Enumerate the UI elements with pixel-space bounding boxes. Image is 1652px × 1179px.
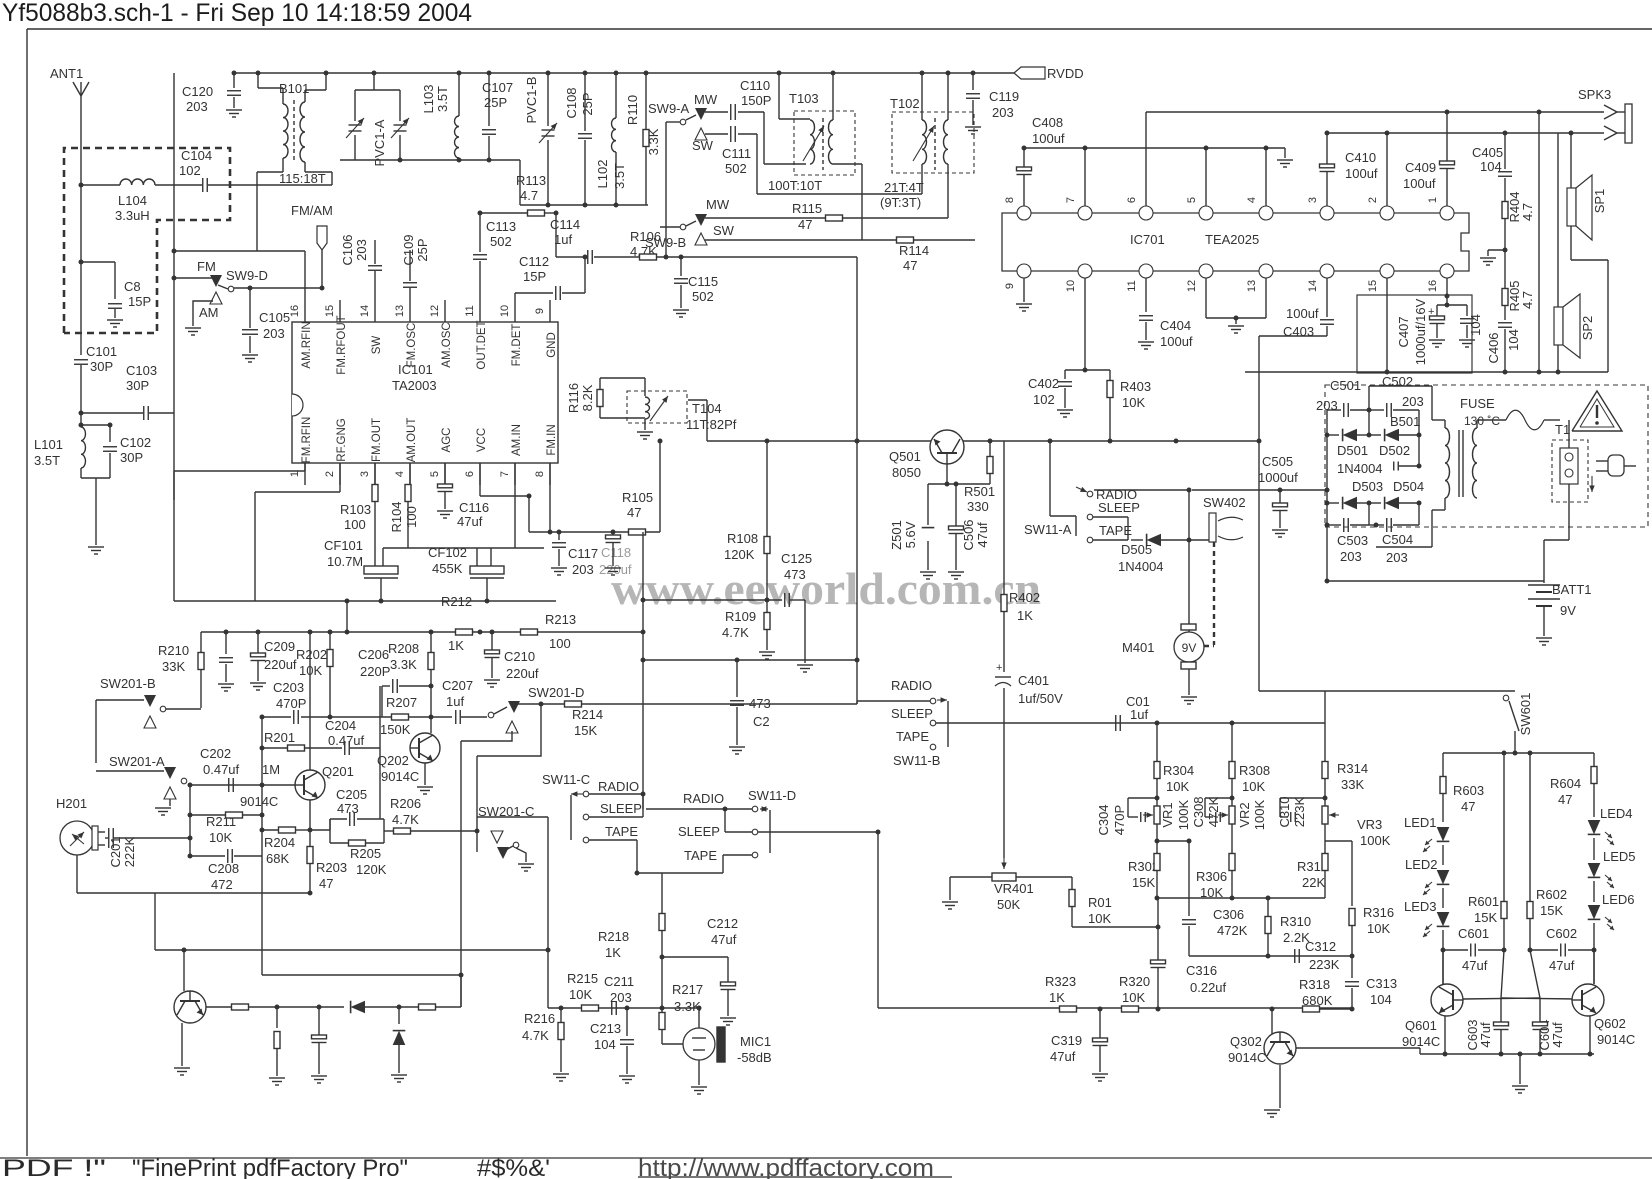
svg-text:C208: C208 — [208, 861, 239, 876]
svg-text:AM.IN: AM.IN — [511, 424, 523, 456]
svg-text:FM.IN: FM.IN — [546, 424, 558, 455]
svg-text:Z501: Z501 — [889, 520, 904, 550]
svg-text:100uf: 100uf — [1286, 306, 1319, 321]
svg-text:+: + — [996, 662, 1002, 674]
svg-text:"FinePrint pdfFactory Pro": "FinePrint pdfFactory Pro" — [132, 1155, 408, 1179]
wire led bottom rail — [1420, 1053, 1594, 1055]
svg-text:100: 100 — [344, 517, 366, 532]
svg-text:R602: R602 — [1536, 887, 1567, 902]
svg-text:www.eeworld.com.cn: www.eeworld.com.cn — [611, 563, 1041, 614]
svg-text:AGC: AGC — [441, 428, 453, 453]
svg-text:R214: R214 — [572, 707, 603, 722]
svg-text:C103: C103 — [126, 363, 157, 378]
wire SW11-C tape contact — [589, 839, 637, 841]
svg-text:13: 13 — [394, 305, 406, 317]
svg-text:SW402: SW402 — [1203, 495, 1246, 510]
svg-text:SW201-D: SW201-D — [528, 685, 584, 700]
svg-text:R306: R306 — [1196, 869, 1227, 884]
svg-text:T102: T102 — [890, 96, 920, 111]
svg-text:472K: 472K — [1217, 923, 1248, 938]
ground motor driver — [174, 1067, 190, 1069]
svg-text:BATT1: BATT1 — [1552, 582, 1592, 597]
svg-text:C404: C404 — [1160, 318, 1191, 333]
svg-text:15K: 15K — [1132, 875, 1155, 890]
amplifier IC701 TEA2025 box — [1002, 213, 1469, 271]
svg-text:21T:4T: 21T:4T — [884, 180, 924, 195]
svg-text:R310: R310 — [1280, 914, 1311, 929]
svg-text:R603: R603 — [1453, 783, 1484, 798]
wire pin5 up — [1205, 148, 1207, 206]
svg-text:C118: C118 — [601, 545, 631, 560]
wire to Q501 rail — [659, 441, 661, 532]
svg-text:SW11-B: SW11-B — [893, 753, 940, 768]
svg-text:RADIO: RADIO — [891, 678, 932, 693]
resistor to switch line — [399, 1006, 419, 1008]
wire pin10 down — [1084, 278, 1086, 370]
svg-text:R212: R212 — [441, 594, 472, 609]
wire pin6 to jack tip — [1145, 112, 1147, 206]
svg-text:C207: C207 — [442, 678, 473, 693]
svg-text:SW601: SW601 — [1518, 693, 1533, 736]
svg-text:PVC1-B: PVC1-B — [524, 77, 539, 124]
wire mid tone bus — [1157, 897, 1325, 899]
plug cord icon — [1596, 460, 1608, 462]
wire pin7 up — [1084, 148, 1086, 206]
svg-text:11: 11 — [464, 305, 476, 316]
svg-text:203: 203 — [992, 105, 1014, 120]
ground C105 — [242, 354, 258, 356]
svg-text:C105: C105 — [259, 310, 290, 325]
svg-text:12: 12 — [429, 305, 441, 317]
svg-text:M401: M401 — [1122, 640, 1155, 655]
svg-text:C213: C213 — [590, 1021, 621, 1036]
svg-text:C2: C2 — [753, 714, 770, 729]
IC101 pin 8 stub — [549, 463, 551, 485]
svg-text:R01: R01 — [1088, 895, 1112, 910]
ground T104 — [637, 431, 653, 433]
svg-text:8050: 8050 — [892, 465, 921, 480]
svg-text:3.3K: 3.3K — [390, 657, 417, 672]
svg-text:100uf: 100uf — [1160, 334, 1193, 349]
wire RADIO line to C505 — [1094, 489, 1189, 491]
ground C125 — [797, 664, 813, 666]
svg-text:4.7K: 4.7K — [722, 625, 749, 640]
svg-text:L102: L102 — [595, 160, 610, 189]
wire SW201-D NC branch — [461, 731, 512, 741]
svg-text:7: 7 — [499, 471, 511, 477]
wire main rail y441 — [707, 440, 1259, 442]
svg-text:50K: 50K — [997, 897, 1020, 912]
svg-text:30P: 30P — [120, 450, 143, 465]
wire led top rail — [1443, 752, 1594, 754]
svg-text:TAPE: TAPE — [896, 729, 929, 744]
ground C213 — [619, 1075, 635, 1077]
svg-text:Q602: Q602 — [1594, 1016, 1626, 1031]
svg-text:R402: R402 — [1009, 590, 1040, 605]
ground MIC1 — [691, 1086, 707, 1088]
wire SW11-C radio contact — [589, 793, 643, 795]
svg-text:33K: 33K — [1341, 777, 1364, 792]
svg-text:1uf: 1uf — [446, 694, 464, 709]
box C407 — [1357, 295, 1472, 373]
svg-text:4: 4 — [394, 471, 406, 477]
wire speaker bottom rail — [1245, 371, 1608, 373]
IC701 pin 12 circle — [1199, 264, 1213, 278]
svg-text:10K: 10K — [209, 830, 232, 845]
svg-text:RF.GNG: RF.GNG — [336, 418, 348, 462]
svg-text:4: 4 — [1246, 197, 1258, 203]
svg-text:100K: 100K — [1176, 799, 1191, 830]
svg-text:R113: R113 — [516, 173, 546, 188]
svg-text:L104: L104 — [118, 193, 147, 208]
svg-text:SW11-A: SW11-A — [1024, 522, 1072, 537]
svg-text:220uf: 220uf — [599, 562, 632, 577]
svg-text:220uf: 220uf — [264, 657, 297, 672]
svg-text:100uf: 100uf — [1403, 176, 1436, 191]
svg-text:C114: C114 — [550, 217, 580, 232]
svg-text:30P: 30P — [126, 378, 149, 393]
op-amp IC101 TA2003 box — [292, 322, 558, 463]
svg-text:1uf: 1uf — [1130, 707, 1148, 722]
svg-text:3.5T: 3.5T — [612, 163, 627, 189]
svg-text:R206: R206 — [390, 796, 421, 811]
svg-text:FM/AM: FM/AM — [291, 203, 333, 218]
svg-text:D504: D504 — [1393, 479, 1424, 494]
svg-text:0.47uf: 0.47uf — [203, 762, 240, 777]
svg-text:FM.OUT: FM.OUT — [371, 418, 383, 462]
svg-text:R217: R217 — [672, 982, 703, 997]
svg-text:1K: 1K — [1017, 608, 1033, 623]
svg-text:9014C: 9014C — [1228, 1050, 1266, 1065]
svg-text:100K: 100K — [1252, 799, 1267, 830]
svg-text:203: 203 — [572, 562, 594, 577]
wire top supply rail RVDD — [234, 72, 1014, 74]
node RVDD tag — [1014, 67, 1045, 79]
wire pin16 to C407 box — [1446, 278, 1448, 296]
svg-text:AM.OUT: AM.OUT — [406, 418, 418, 463]
warning triangle — [1572, 391, 1622, 431]
wire Q201 base — [190, 784, 295, 786]
svg-text:C210: C210 — [504, 649, 535, 664]
svg-text:TAPE: TAPE — [684, 848, 717, 863]
svg-text:Q202: Q202 — [377, 753, 409, 768]
svg-text:33K: 33K — [162, 659, 185, 674]
svg-text:SLEEP: SLEEP — [678, 824, 720, 839]
wire base bias column — [261, 717, 263, 856]
svg-text:FM.RFOUT: FM.RFOUT — [336, 315, 348, 374]
svg-text:9V: 9V — [1182, 641, 1197, 655]
IC701 pin 6 circle — [1139, 206, 1153, 220]
wire main low bus — [878, 1007, 1352, 1009]
svg-text:R320: R320 — [1119, 974, 1150, 989]
svg-text:TA2003: TA2003 — [392, 378, 437, 393]
svg-text:10K: 10K — [1242, 779, 1265, 794]
svg-text:C116: C116 — [459, 500, 489, 515]
ground Z501 — [920, 571, 936, 573]
IC101 pin 14 stub — [374, 300, 376, 322]
ground C120 — [226, 109, 242, 111]
svg-text:9V: 9V — [1560, 603, 1576, 618]
svg-text:C201: C201 — [108, 836, 123, 867]
IC101 pin 4 stub — [409, 463, 411, 485]
svg-text:SW: SW — [371, 336, 383, 355]
svg-text:1K: 1K — [1049, 990, 1065, 1005]
svg-text:Q601: Q601 — [1405, 1018, 1437, 1033]
svg-text:C117: C117 — [568, 546, 598, 561]
svg-text:6: 6 — [464, 471, 476, 477]
svg-text:SW9-A: SW9-A — [648, 101, 690, 116]
svg-text:502: 502 — [725, 161, 747, 176]
footer separator line — [0, 1157, 1652, 1159]
svg-text:102: 102 — [179, 163, 201, 178]
svg-text:CF102: CF102 — [428, 545, 467, 560]
wire supply rail 200 — [201, 631, 643, 633]
svg-text:R314: R314 — [1337, 761, 1368, 776]
ground C115 — [673, 309, 689, 311]
wire audio vertical to bus — [877, 832, 879, 1008]
wire jack tip branch — [1538, 112, 1540, 372]
wire pin4 up — [1265, 148, 1267, 206]
svg-text:R110: R110 — [625, 95, 640, 125]
svg-text:T103: T103 — [789, 91, 819, 106]
svg-text:SW201-A: SW201-A — [109, 754, 165, 769]
ground pin8 rail — [1277, 159, 1293, 161]
top border line — [27, 28, 1652, 30]
svg-text:47: 47 — [319, 876, 333, 891]
svg-text:16: 16 — [289, 305, 301, 317]
wire SW11-C sleep contact — [589, 816, 643, 818]
svg-text:47: 47 — [627, 505, 641, 520]
svg-text:LED4: LED4 — [1600, 806, 1633, 821]
svg-text:100: 100 — [404, 506, 419, 528]
wire pin3 pin2 line — [1326, 132, 1604, 134]
svg-text:R403: R403 — [1120, 379, 1151, 394]
svg-text:R115: R115 — [792, 201, 822, 216]
diode series — [277, 1006, 344, 1008]
svg-text:1N4004: 1N4004 — [1118, 559, 1164, 574]
svg-text:100T:10T: 100T:10T — [768, 178, 822, 193]
IC101 pin 7 stub — [514, 463, 516, 485]
wire pin7 AM.IN — [514, 463, 516, 548]
svg-text:SLEEP: SLEEP — [600, 801, 642, 816]
wire base node — [928, 483, 990, 485]
svg-text:C104: C104 — [181, 148, 212, 163]
svg-text:1K: 1K — [605, 945, 621, 960]
wire cross coupling — [1501, 950, 1504, 998]
ground Q202 — [417, 786, 433, 788]
svg-text:LED1: LED1 — [1404, 815, 1437, 830]
svg-text:TEA2025: TEA2025 — [1205, 232, 1259, 247]
svg-text:C408: C408 — [1032, 115, 1063, 130]
IC101 pin 6 stub — [479, 463, 481, 485]
wire motor driver output — [206, 1006, 232, 1008]
svg-text:FM.DET: FM.DET — [511, 324, 523, 367]
svg-text:47uf: 47uf — [1550, 1022, 1565, 1048]
svg-text:47: 47 — [1558, 792, 1572, 807]
dashed link SW402 to motor — [1213, 542, 1215, 645]
wire T104 to rail — [706, 400, 708, 441]
svg-text:http://www.pdffactory.com: http://www.pdffactory.com — [638, 1155, 934, 1179]
wire sw601 feed — [1259, 690, 1515, 692]
svg-text:CF101: CF101 — [324, 538, 363, 553]
svg-text:203: 203 — [1340, 549, 1362, 564]
svg-text:SW9-D: SW9-D — [226, 268, 268, 283]
wire L101 C102 join — [81, 424, 110, 426]
capacitor unlabeled near R210 — [225, 632, 227, 654]
ground BATT1 — [1536, 637, 1552, 639]
svg-text:L101: L101 — [34, 437, 63, 452]
svg-text:C319: C319 — [1051, 1033, 1082, 1048]
svg-text:(9T:3T): (9T:3T) — [880, 195, 921, 210]
wire tape line down — [547, 817, 549, 1008]
svg-text:220uf: 220uf — [506, 666, 539, 681]
svg-text:100uf: 100uf — [1345, 166, 1378, 181]
svg-text:C108: C108 — [564, 87, 579, 118]
svg-text:C202: C202 — [200, 746, 231, 761]
svg-text:Q302: Q302 — [1230, 1034, 1262, 1049]
wire mic input line — [548, 1007, 699, 1009]
svg-text:C306: C306 — [1213, 907, 1244, 922]
svg-text:C212: C212 — [707, 916, 738, 931]
wire pin8 top rail — [1024, 147, 1285, 149]
ground C117 — [551, 567, 567, 569]
svg-text:RADIO: RADIO — [598, 779, 639, 794]
svg-text:203: 203 — [263, 326, 285, 341]
svg-text:C308: C308 — [1191, 796, 1206, 827]
svg-text:C403: C403 — [1283, 324, 1314, 339]
svg-text:R109: R109 — [725, 609, 756, 624]
svg-text:502: 502 — [692, 289, 714, 304]
transistor motor driver — [174, 991, 206, 1023]
svg-text:C204: C204 — [325, 718, 356, 733]
svg-text:R201: R201 — [264, 730, 295, 745]
svg-text:R304: R304 — [1163, 763, 1194, 778]
svg-text:15: 15 — [324, 305, 336, 317]
svg-text:455K: 455K — [432, 561, 463, 576]
ground pins 12 13 — [1228, 325, 1244, 327]
svg-text:-58dB: -58dB — [737, 1050, 772, 1065]
svg-text:C310: C310 — [1277, 796, 1292, 827]
wire pin6 VCC — [479, 463, 481, 496]
ground C210 — [484, 679, 500, 681]
svg-text:IC701: IC701 — [1130, 232, 1165, 247]
dashed power box — [1325, 385, 1648, 527]
svg-text:D505: D505 — [1121, 542, 1152, 557]
svg-text:9: 9 — [1004, 283, 1016, 289]
svg-text:C113: C113 — [486, 219, 516, 234]
svg-text:472: 472 — [211, 877, 233, 892]
svg-text:B501: B501 — [1390, 414, 1420, 429]
svg-text:5.6V: 5.6V — [903, 521, 918, 548]
svg-text:4.7: 4.7 — [1520, 203, 1535, 221]
svg-text:C101: C101 — [86, 344, 117, 359]
svg-text:R216: R216 — [524, 1011, 555, 1026]
wire pin2 RF.GNG — [339, 463, 341, 492]
svg-text:102: 102 — [1033, 392, 1055, 407]
svg-text:SPK3: SPK3 — [1578, 87, 1611, 102]
svg-text:LED6: LED6 — [1602, 892, 1635, 907]
wire C206 C207 node to Q202 — [430, 717, 432, 733]
svg-text:100: 100 — [549, 636, 571, 651]
wire Q302 collector — [1296, 1047, 1420, 1049]
svg-text:1: 1 — [1427, 197, 1439, 203]
svg-text:FM: FM — [197, 259, 216, 274]
svg-text:R204: R204 — [264, 835, 295, 850]
svg-text:FM.OSC: FM.OSC — [406, 323, 418, 368]
svg-text:115:18T: 115:18T — [279, 171, 326, 186]
svg-text:R308: R308 — [1239, 763, 1270, 778]
svg-text:C106: C106 — [340, 234, 355, 265]
svg-text:2: 2 — [1367, 197, 1379, 203]
IC101 pin 11 stub — [479, 300, 481, 322]
svg-text:VR1: VR1 — [1160, 802, 1175, 827]
svg-text:30P: 30P — [90, 359, 113, 374]
svg-text:+: + — [1428, 306, 1434, 318]
svg-text:R103: R103 — [340, 502, 371, 517]
IC701 pin 7 circle — [1078, 206, 1092, 220]
svg-text:203: 203 — [1386, 550, 1408, 565]
svg-text:C107: C107 — [482, 80, 513, 95]
svg-text:8.2K: 8.2K — [580, 384, 595, 411]
ground mid tap — [1488, 249, 1505, 251]
IC101 pin 9 stub — [549, 300, 551, 322]
svg-text:10K: 10K — [1122, 395, 1145, 410]
svg-text:SW11-D: SW11-D — [748, 788, 796, 803]
svg-text:203: 203 — [354, 239, 369, 261]
wire H201 ground return — [76, 855, 78, 893]
ground C8 — [107, 319, 123, 321]
svg-text:222K: 222K — [122, 836, 137, 867]
svg-text:104: 104 — [594, 1037, 616, 1052]
detector filter row — [529, 531, 660, 533]
wire pin15 down — [1386, 278, 1388, 372]
wire bridge columns — [1326, 410, 1328, 581]
svg-text:223K: 223K — [1309, 957, 1340, 972]
svg-text:10K: 10K — [1367, 921, 1390, 936]
svg-text:473: 473 — [337, 801, 359, 816]
svg-text:R108: R108 — [727, 531, 758, 546]
wire left column — [189, 785, 191, 856]
capacitor shunt — [318, 1007, 320, 1035]
svg-text:C120: C120 — [182, 84, 213, 99]
IC701 pin 15 circle — [1380, 264, 1394, 278]
svg-text:SW: SW — [713, 223, 735, 238]
svg-text:SP2: SP2 — [1580, 316, 1595, 341]
ground pin9 — [1023, 278, 1025, 302]
IC101 pin 12 stub — [444, 300, 446, 322]
ground R109 — [759, 651, 775, 653]
svg-text:C125: C125 — [781, 551, 812, 566]
svg-text:C410: C410 — [1345, 150, 1376, 165]
svg-text:R114: R114 — [899, 243, 929, 258]
wire mid bus join — [697, 1006, 702, 1011]
wire SW11-D sleep out — [725, 831, 752, 833]
svg-text:3: 3 — [359, 471, 371, 477]
svg-text:1000uf/16V: 1000uf/16V — [1413, 298, 1428, 365]
svg-text:C316: C316 — [1186, 963, 1217, 978]
wire detector out line — [643, 659, 857, 661]
IC701 pin 1 circle — [1440, 206, 1454, 220]
svg-text:47: 47 — [1461, 799, 1475, 814]
svg-text:1000uf: 1000uf — [1258, 470, 1298, 485]
dashed shield box C8 L104 — [64, 148, 230, 333]
svg-text:D502: D502 — [1379, 443, 1410, 458]
svg-text:47uf: 47uf — [711, 932, 737, 947]
svg-text:D501: D501 — [1337, 443, 1368, 458]
svg-text:Q201: Q201 — [322, 764, 354, 779]
svg-text:47uf: 47uf — [975, 522, 990, 548]
IC701 pin 14 circle — [1320, 264, 1334, 278]
